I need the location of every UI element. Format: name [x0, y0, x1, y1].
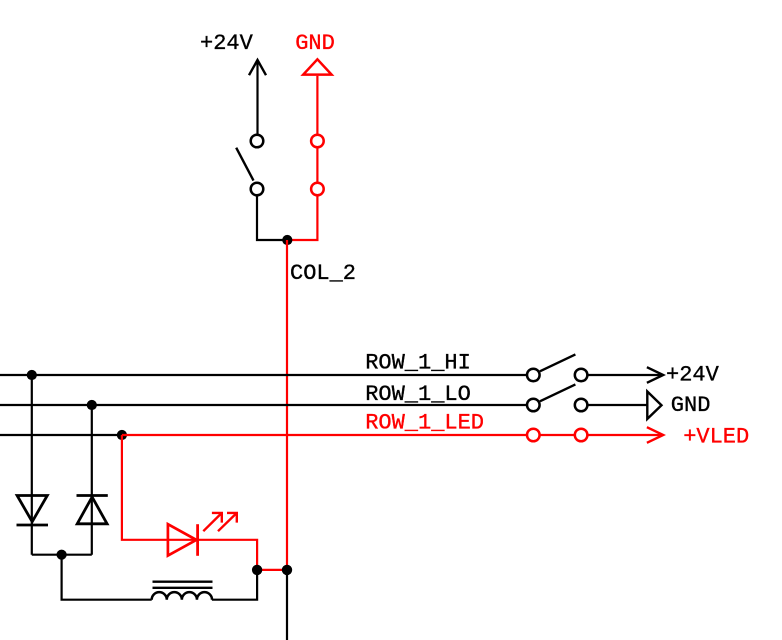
LED light arrow 2: [218, 513, 237, 531]
wire S5 to GND symbol: [588, 404, 648, 406]
svg-text:COL_2: COL_2: [290, 261, 356, 286]
wire ROW_1_LED red to switch and arrow: [122, 434, 662, 436]
svg-text:ROW_1_LED: ROW_1_LED: [365, 410, 484, 435]
output arrow +VLED: [647, 427, 663, 443]
inductor L1: [152, 582, 213, 600]
power symbol GND triangle: [303, 59, 331, 74]
wire S1 to COL_2 junction: [257, 196, 287, 241]
diode D1: [17, 496, 49, 526]
wire S4 to arrow: [588, 374, 662, 376]
wire ROW_1_HI: [0, 374, 540, 376]
LED D3: [167, 524, 198, 556]
wire ROW_1_LED left (black): [0, 434, 122, 436]
switch S1 (+24V to COL_2, open): [236, 135, 263, 196]
output arrow +24V: [647, 367, 663, 383]
wire COL_2 continues down: [286, 570, 288, 640]
svg-text:GND: GND: [295, 31, 335, 56]
wire LED anode: [122, 435, 167, 540]
switch S5 (ROW_1_LO, open): [527, 384, 587, 411]
power symbol +24V arrow: [249, 60, 266, 135]
wire LED cathode to junction: [198, 540, 258, 570]
junction ROW_1_LED: [117, 430, 127, 440]
diode D2: [77, 496, 108, 524]
LED light arrow 1: [203, 513, 222, 531]
wire D2 vertical: [91, 405, 93, 555]
junction ROW_1_HI to D1: [27, 370, 37, 380]
svg-text:ROW_1_LO: ROW_1_LO: [365, 382, 471, 407]
wire S2 to COL_2 junction: [287, 196, 317, 241]
junction LED-inductor: [252, 565, 262, 575]
switch S4 (ROW_1_HI, open): [527, 354, 587, 381]
switch S2 (GND to COL_2, closed): [311, 135, 324, 196]
wire common to inductor: [62, 555, 152, 600]
svg-text:+24V: +24V: [200, 31, 254, 56]
wire junction to COL_2 junction (red): [257, 569, 287, 571]
svg-text:ROW_1_HI: ROW_1_HI: [365, 350, 471, 375]
wire ROW_1_LO: [0, 404, 540, 406]
wire inductor to junction: [212, 570, 257, 600]
wire COL_2 vertical: [286, 240, 288, 570]
wire GND to S2: [316, 76, 318, 135]
junction diode common: [57, 550, 67, 560]
wire diode common node: [32, 554, 92, 556]
switch S3 (ROW_1_LED, closed): [527, 429, 587, 442]
svg-text:+24V: +24V: [666, 363, 720, 388]
output symbol GND triangle: [647, 392, 661, 419]
junction ROW_1_LO to D2: [87, 400, 97, 410]
svg-text:GND: GND: [671, 393, 711, 418]
junction COL_2 top: [282, 235, 292, 245]
svg-text:+VLED: +VLED: [683, 424, 749, 449]
junction COL_2 bottom: [282, 565, 292, 575]
wire D1 vertical: [31, 375, 33, 555]
